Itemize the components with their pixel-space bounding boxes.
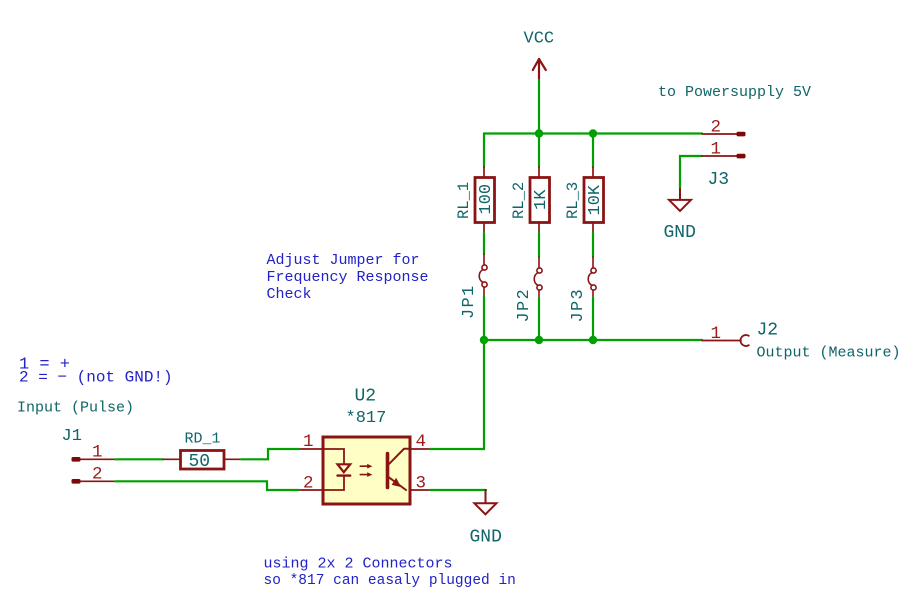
light arrows inside U2 [360, 464, 372, 477]
svg-text:2 = − (not GND!): 2 = − (not GND!) [19, 369, 173, 387]
LED inside U2 [323, 449, 350, 490]
svg-text:1: 1 [92, 443, 103, 463]
svg-text:2: 2 [92, 465, 103, 485]
power flag VCC [533, 59, 546, 80]
svg-text:Output (Measure): Output (Measure) [757, 345, 901, 362]
connector J1 pin 2 [72, 479, 81, 484]
wire J1 pin1 to RD_1 [115, 458, 163, 460]
svg-text:JP2: JP2 [515, 288, 534, 323]
svg-text:RL_3: RL_3 [564, 182, 582, 219]
wire top rail [484, 132, 702, 134]
wire J1 pin2 to U2 pin2 [115, 481, 299, 490]
resistor RD_1 [163, 431, 241, 473]
ground symbol (J3) [669, 189, 691, 211]
svg-text:10K: 10K [586, 184, 605, 215]
svg-text:so *817 can easaly plugged in: so *817 can easaly plugged in [264, 573, 516, 589]
wire J3 pin1 [680, 156, 702, 190]
svg-text:RL_2: RL_2 [510, 182, 528, 219]
svg-text:2: 2 [711, 118, 722, 138]
jumper JP3 [588, 257, 596, 298]
pin 4 (U2) [410, 448, 430, 450]
wire col2 RL_2 to JP2 [538, 233, 540, 257]
wire VCC stem [538, 80, 540, 134]
resistor RL_1 [455, 167, 496, 233]
junction output rail col2 [535, 336, 543, 344]
svg-text:4: 4 [416, 432, 427, 452]
svg-text:1K: 1K [532, 189, 551, 210]
optocoupler U2 body [323, 437, 410, 504]
svg-text:using 2x 2 Connectors: using 2x 2 Connectors [264, 556, 453, 573]
svg-text:2: 2 [303, 474, 314, 494]
wire col2 JP2 to rail [538, 298, 540, 341]
svg-text:VCC: VCC [524, 30, 555, 49]
svg-text:1: 1 [303, 432, 314, 452]
ground symbol (U2 pin3) [474, 490, 496, 514]
svg-text:100: 100 [477, 184, 496, 215]
jumper JP2 [534, 257, 542, 298]
pin 1 (U2) [299, 448, 323, 450]
junction top rail col3 [589, 129, 597, 137]
wire col3 above RL_3 [592, 134, 594, 168]
wire U2 pin3 to ground [430, 489, 486, 491]
connector J3 pin 1 [702, 155, 738, 157]
svg-text:GND: GND [470, 528, 502, 548]
connector J1 pin 1 [72, 457, 81, 462]
svg-text:Adjust Jumper for: Adjust Jumper for [267, 252, 420, 269]
wire RD_1 to U2 pin1 [241, 449, 299, 459]
connector J2 pin 1 [702, 340, 741, 342]
svg-text:to Powersupply 5V: to Powersupply 5V [658, 84, 811, 101]
svg-text:U2: U2 [355, 387, 377, 407]
wire col3 RL_3 to JP3 [592, 233, 594, 257]
svg-text:Check: Check [267, 286, 312, 303]
svg-text:Frequency Response: Frequency Response [267, 269, 429, 286]
svg-text:JP3: JP3 [569, 288, 588, 323]
svg-text:50: 50 [189, 452, 211, 472]
wire col2 above RL_2 [538, 134, 540, 168]
jumper JP1 [479, 254, 487, 296]
svg-text:Input (Pulse): Input (Pulse) [17, 400, 134, 417]
svg-text:1: 1 [711, 324, 722, 344]
svg-text:RL_1: RL_1 [455, 182, 473, 219]
junction output rail col3 [589, 336, 597, 344]
svg-text:GND: GND [664, 223, 696, 243]
wire col3 JP3 to rail [592, 298, 594, 341]
svg-text:RD_1: RD_1 [185, 431, 221, 448]
wire U2 pin4 to output rail [430, 340, 484, 449]
wire col1 RL_1 to JP1 [483, 233, 485, 254]
svg-text:*817: *817 [346, 409, 387, 428]
resistor RL_3 [564, 167, 605, 233]
junction top rail col2 [535, 129, 543, 137]
svg-text:JP1: JP1 [460, 284, 479, 319]
connector J3 pin 2 [702, 133, 738, 135]
junction output rail col1 [480, 336, 488, 344]
wire col1 above RL_1 [483, 134, 485, 168]
svg-text:J2: J2 [757, 321, 779, 341]
pin 2 (U2) [299, 489, 323, 491]
wire col1 JP1 to rail [483, 296, 485, 340]
resistor RL_2 [510, 167, 551, 233]
svg-text:J3: J3 [708, 170, 730, 190]
svg-text:J1: J1 [62, 427, 82, 446]
wire output rail [484, 339, 702, 341]
pin 3 (U2) [410, 489, 430, 491]
svg-text:1: 1 [711, 140, 722, 160]
svg-text:3: 3 [416, 474, 427, 494]
phototransistor inside U2 [388, 449, 411, 490]
